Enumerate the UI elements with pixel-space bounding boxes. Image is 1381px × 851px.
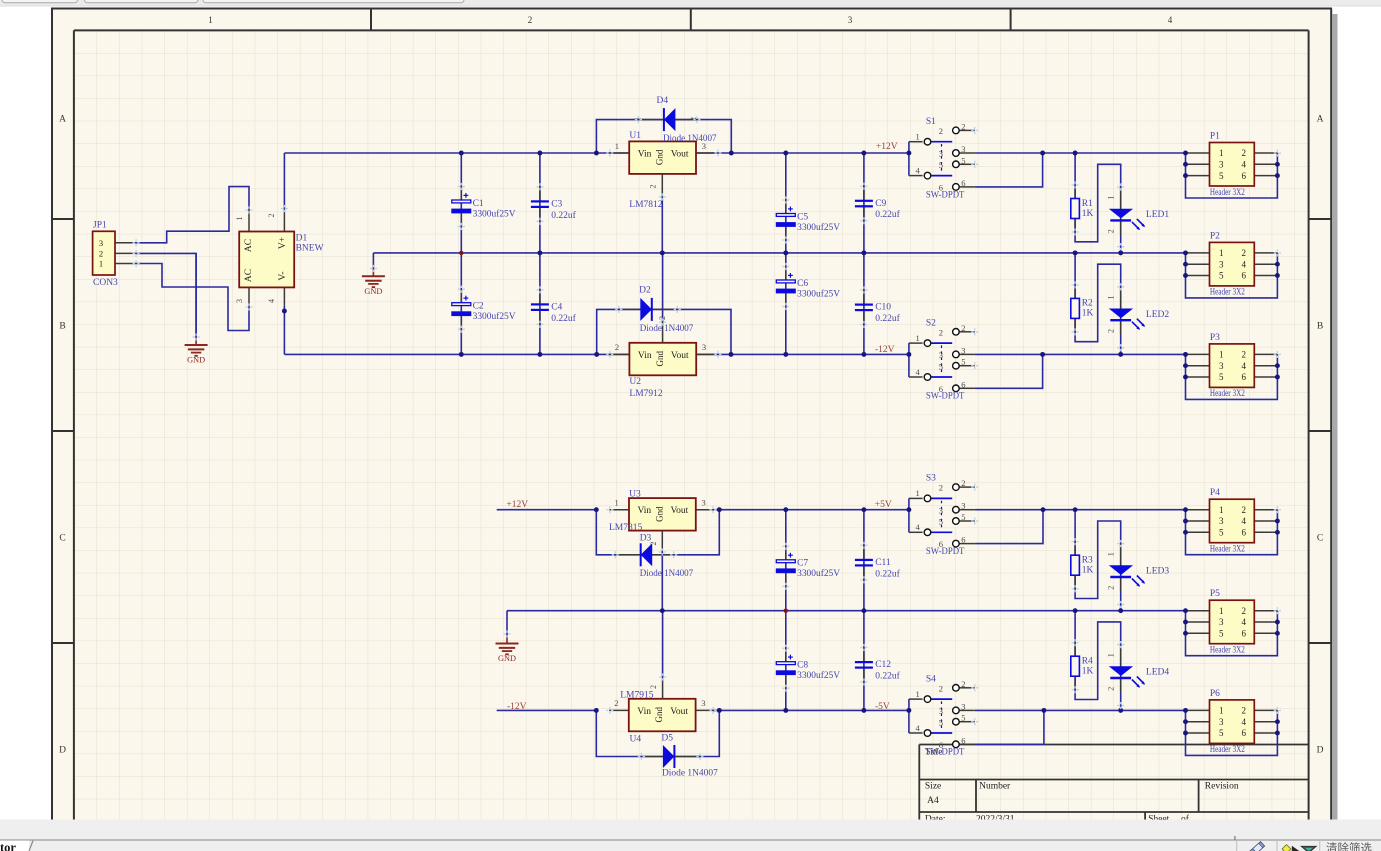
wire GND stem lower — [506, 611, 508, 636]
svg-text:LED3: LED3 — [1146, 567, 1169, 577]
svg-text:SW-DPDT: SW-DPDT — [926, 748, 965, 758]
svg-text:C7: C7 — [797, 559, 808, 569]
svg-text:1: 1 — [99, 259, 103, 269]
status bar filter icons — [1237, 841, 1317, 851]
voltage regulator U3 LM7815 — [609, 489, 715, 552]
header P3 3X2 — [1183, 333, 1280, 400]
svg-text:3: 3 — [702, 498, 706, 508]
wire S3 pin6 link — [975, 510, 1043, 544]
wire C7/C8 column — [785, 510, 787, 711]
svg-text:U1: U1 — [629, 131, 641, 141]
svg-text:SW-DPDT: SW-DPDT — [926, 392, 965, 402]
capacitor C11 0.22uf — [855, 545, 901, 580]
wire U4 gnd pin wire — [662, 611, 664, 677]
svg-text:Size: Size — [925, 782, 941, 792]
svg-text:3: 3 — [235, 299, 244, 303]
svg-text:C: C — [1317, 534, 1323, 544]
svg-text:tor: tor — [0, 841, 16, 851]
ground GND (JP1) — [185, 253, 208, 364]
svg-text:P5: P5 — [1210, 589, 1220, 599]
capacitor C6 3300uf25V — [776, 267, 840, 307]
header P6 3X2 — [1183, 689, 1280, 756]
wire S1 pin6 link — [975, 153, 1043, 187]
voltage regulator U4 LM7915 — [609, 677, 715, 744]
header P1 3X2 — [1183, 131, 1280, 198]
svg-text:Diode 1N4007: Diode 1N4007 — [663, 134, 717, 144]
zone labels — [59, 15, 1324, 756]
diode D3 1N4007 — [640, 533, 694, 579]
svg-text:3: 3 — [848, 15, 853, 25]
svg-text:U2: U2 — [629, 377, 641, 387]
svg-text:0.22uf: 0.22uf — [875, 568, 900, 579]
svg-text:2: 2 — [649, 185, 658, 189]
svg-text:3300uf25V: 3300uf25V — [797, 222, 840, 233]
svg-text:SW-DPDT: SW-DPDT — [926, 190, 965, 200]
svg-text:CON3: CON3 — [93, 278, 118, 288]
wire R1-LED1 route — [1075, 153, 1121, 253]
svg-text:1: 1 — [208, 15, 213, 25]
svg-text:2: 2 — [267, 214, 276, 218]
capacitor C8 3300uf25V — [776, 648, 840, 688]
wire mid GND rail — [373, 252, 1185, 254]
wire +12V rail — [284, 152, 909, 154]
svg-text:BNEW: BNEW — [296, 244, 324, 254]
wire C5/C6 column — [785, 153, 787, 354]
wire bridge V+ riser — [283, 153, 285, 209]
svg-text:C2: C2 — [473, 302, 484, 312]
status bar pencil icon — [1247, 842, 1265, 851]
svg-text:R4: R4 — [1082, 657, 1093, 667]
svg-text:D1: D1 — [296, 234, 308, 244]
svg-text:-5V: -5V — [875, 702, 890, 712]
wire D2 loop — [597, 309, 731, 354]
header P4 3X2 — [1183, 488, 1280, 555]
resistor R2 1K — [1071, 285, 1094, 332]
resistor R1 1K — [1071, 185, 1094, 232]
capacitor C5 3300uf25V — [776, 200, 840, 240]
capacitor C12 0.22uf — [855, 648, 901, 683]
svg-text:C9: C9 — [875, 199, 886, 209]
wire S4 pin6 link — [975, 710, 1044, 744]
wire JP1 pin2 to GND — [136, 253, 196, 336]
svg-text:-12V: -12V — [507, 702, 527, 712]
D2 pin line — [619, 308, 678, 310]
svg-text:B: B — [1317, 322, 1323, 332]
svg-text:P1: P1 — [1210, 131, 1220, 141]
svg-text:R3: R3 — [1082, 556, 1093, 566]
svg-text:D5: D5 — [661, 734, 673, 744]
svg-text:C6: C6 — [797, 279, 808, 289]
svg-text:0.22uf: 0.22uf — [875, 313, 900, 324]
svg-text:AC: AC — [244, 269, 254, 282]
svg-text:JP1: JP1 — [93, 221, 107, 231]
wire C11/C12 column — [863, 510, 865, 711]
LED LED4 — [1107, 645, 1170, 693]
svg-text:AC: AC — [244, 239, 254, 252]
svg-text:3300uf25V: 3300uf25V — [797, 670, 840, 681]
svg-text:A: A — [59, 115, 66, 125]
svg-text:C1: C1 — [473, 199, 484, 209]
svg-text:Revision: Revision — [1205, 782, 1239, 792]
svg-text:LM7815: LM7815 — [609, 523, 643, 533]
svg-text:LM7915: LM7915 — [620, 690, 654, 700]
voltage regulator U1 LM7812 — [610, 131, 716, 210]
wire lower GND rail — [507, 610, 1186, 612]
svg-text:LED4: LED4 — [1146, 668, 1169, 678]
switch S3 SW-DPDT — [909, 474, 975, 557]
wire S3 pin3 output — [975, 509, 1186, 511]
capacitor C10 0.22uf — [855, 290, 901, 325]
switch S2 SW-DPDT — [909, 318, 975, 401]
D3 pin line — [615, 554, 674, 556]
sheet drop shadow — [1333, 14, 1338, 820]
svg-text:清除筛选: 清除筛选 — [1326, 841, 1372, 851]
wire +12V input stub — [497, 509, 597, 511]
svg-text:0.22uf: 0.22uf — [551, 313, 576, 324]
svg-text:C3: C3 — [551, 200, 562, 210]
svg-text:3: 3 — [701, 698, 705, 708]
wire C1/C2 column — [460, 153, 462, 354]
svg-text:V-: V- — [278, 271, 288, 280]
wire JP1 pin1 to bridge AC2 — [136, 264, 249, 331]
svg-text:S2: S2 — [926, 318, 936, 328]
svg-text:0.22uf: 0.22uf — [875, 209, 900, 220]
connector JP1 — [93, 221, 137, 288]
svg-text:2: 2 — [615, 342, 619, 352]
svg-text:0.22uf: 0.22uf — [875, 671, 900, 682]
wire D5 loop — [596, 710, 719, 756]
svg-text:C10: C10 — [875, 303, 891, 313]
wire R4-LED4 route — [1075, 611, 1121, 711]
svg-text:D4: D4 — [657, 96, 669, 106]
LED LED3 — [1107, 544, 1170, 592]
header P2 3X2 — [1183, 231, 1280, 298]
svg-text:LM7912: LM7912 — [629, 389, 663, 399]
header P5 3X2 — [1183, 589, 1280, 656]
wire R3-LED3 route — [1075, 510, 1121, 611]
wire C3/C4 column — [539, 153, 541, 354]
svg-text:U4: U4 — [630, 734, 642, 744]
wire -12V rail — [284, 353, 909, 355]
wire +5V rail — [713, 509, 909, 511]
bridge rectifier D1 BNEW — [235, 209, 324, 307]
ground GND (lower) — [496, 636, 519, 655]
svg-text:1K: 1K — [1082, 566, 1094, 576]
capacitor C2 3300uf25V — [451, 289, 515, 329]
LED LED2 — [1107, 287, 1170, 335]
svg-text:+12V: +12V — [506, 500, 528, 510]
ground GND (mid rail) — [362, 268, 385, 287]
wire bridge V- drop — [283, 306, 285, 355]
svg-text:R2: R2 — [1082, 299, 1093, 309]
svg-text:D: D — [1317, 746, 1324, 756]
svg-text:C12: C12 — [875, 660, 891, 670]
svg-text:2: 2 — [99, 248, 103, 258]
wire D3 loop — [596, 510, 719, 555]
switch S1 SW-DPDT — [909, 117, 975, 200]
capacitor C9 0.22uf — [855, 186, 901, 221]
wire S1 pin3 output — [975, 152, 1186, 154]
pin hotspot markers — [133, 116, 1282, 760]
svg-text:C8: C8 — [797, 661, 808, 671]
svg-text:P3: P3 — [1210, 333, 1220, 343]
svg-text:V+: V+ — [278, 237, 288, 249]
svg-text:Diode 1N4007: Diode 1N4007 — [640, 569, 694, 579]
wire D4 loop — [596, 120, 731, 153]
wire C9/C10 column — [863, 153, 865, 354]
svg-text:C: C — [59, 534, 65, 544]
svg-text:2: 2 — [649, 685, 658, 689]
svg-text:3300uf25V: 3300uf25V — [797, 288, 840, 299]
D5 pin line — [641, 756, 700, 758]
wire -5V rail — [713, 709, 909, 711]
red junction (C7/C8 gnd) — [784, 609, 788, 613]
diode D5 1N4007 — [661, 734, 718, 779]
svg-text:1K: 1K — [1082, 309, 1094, 319]
wire R2-LED2 route — [1075, 253, 1121, 355]
D4 pin line — [638, 119, 697, 121]
svg-text:Diode 1N4007: Diode 1N4007 — [640, 324, 694, 334]
wire S2 pin6 link — [975, 354, 1043, 388]
svg-text:GND: GND — [364, 287, 382, 296]
svg-text:SW-DPDT: SW-DPDT — [926, 547, 965, 557]
svg-text:B: B — [59, 322, 65, 332]
svg-text:S4: S4 — [926, 674, 936, 684]
resistor R4 1K — [1071, 643, 1094, 690]
svg-text:3: 3 — [99, 238, 103, 248]
svg-text:A4: A4 — [927, 796, 939, 806]
svg-text:1: 1 — [235, 217, 244, 221]
svg-text:2: 2 — [614, 698, 618, 708]
svg-text:S3: S3 — [926, 474, 936, 484]
capacitor C4 0.22uf — [531, 290, 577, 325]
svg-text:1: 1 — [615, 498, 619, 508]
capacitor C7 3300uf25V — [776, 546, 840, 586]
svg-text:GND: GND — [498, 654, 516, 663]
wire U2 gnd pin wire — [662, 253, 664, 322]
diode D2 1N4007 — [639, 286, 693, 334]
svg-text:2: 2 — [528, 15, 533, 25]
svg-text:LED2: LED2 — [1146, 310, 1169, 320]
svg-text:1K: 1K — [1082, 209, 1094, 219]
svg-text:+5V: +5V — [875, 500, 892, 510]
svg-text:P4: P4 — [1210, 488, 1220, 498]
svg-text:D2: D2 — [639, 286, 651, 296]
svg-text:3: 3 — [702, 342, 706, 352]
red junction (C1/C2 mid) — [459, 251, 463, 255]
svg-text:D3: D3 — [640, 533, 652, 543]
wire JP1 pin3 to bridge AC1 — [136, 187, 249, 243]
wire S4 pin3 output — [975, 709, 1186, 711]
wire U1 gnd pin wire — [661, 197, 663, 253]
svg-text:S1: S1 — [926, 117, 936, 127]
svg-text:P2: P2 — [1210, 231, 1220, 241]
diode D4 1N4007 — [632, 96, 717, 144]
capacitor C3 0.22uf — [531, 187, 577, 222]
svg-text:U3: U3 — [629, 489, 641, 499]
voltage regulator U2 LM7912 — [610, 316, 716, 399]
wire U3 gnd pin wire — [661, 552, 663, 611]
wire -12V input stub — [497, 709, 597, 711]
svg-text:LED1: LED1 — [1146, 210, 1169, 220]
svg-text:3300uf25V: 3300uf25V — [797, 568, 840, 579]
svg-text:LM7812: LM7812 — [629, 200, 663, 210]
top toolbar strip — [0, 0, 1381, 7]
svg-text:Number: Number — [979, 782, 1011, 792]
svg-text:Diode 1N4007: Diode 1N4007 — [662, 768, 718, 778]
svg-text:A: A — [1317, 115, 1324, 125]
svg-text:3300uf25V: 3300uf25V — [473, 208, 516, 219]
svg-text:C11: C11 — [875, 558, 891, 568]
svg-text:1: 1 — [615, 141, 619, 151]
svg-text:D: D — [59, 746, 66, 756]
bottom status bar — [0, 820, 1381, 851]
svg-text:C4: C4 — [551, 303, 562, 313]
wire GND stem mid — [372, 253, 374, 269]
svg-text:3300uf25V: 3300uf25V — [473, 311, 516, 322]
capacitor C1 3300uf25V — [451, 187, 515, 227]
svg-text:P6: P6 — [1210, 689, 1220, 699]
svg-text:4: 4 — [1168, 15, 1173, 25]
svg-text:1K: 1K — [1082, 667, 1094, 677]
resistor R3 1K — [1071, 542, 1094, 589]
title block — [919, 745, 1308, 820]
svg-text:0.22uf: 0.22uf — [551, 210, 576, 221]
svg-text:4: 4 — [267, 299, 276, 303]
svg-text:R1: R1 — [1082, 199, 1093, 209]
switch S4 SW-DPDT — [909, 674, 975, 757]
svg-text:GND: GND — [187, 356, 205, 365]
svg-text:+12V: +12V — [876, 142, 898, 152]
wire S2 pin3 output — [975, 353, 1186, 355]
LED LED1 — [1107, 187, 1170, 235]
svg-text:-12V: -12V — [875, 345, 895, 355]
svg-text:C5: C5 — [797, 212, 808, 222]
